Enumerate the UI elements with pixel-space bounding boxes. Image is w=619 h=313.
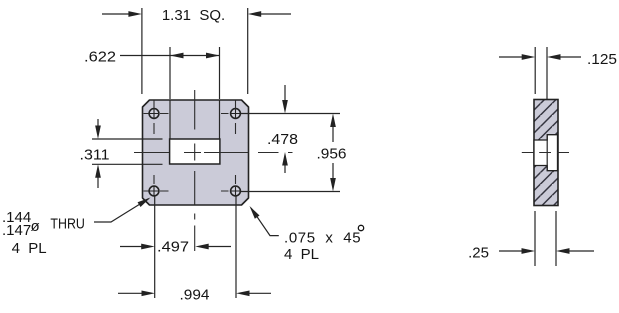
svg-text:ø: ø: [31, 218, 40, 235]
svg-text:.497: .497: [157, 239, 189, 256]
svg-text:4 PL: 4 PL: [284, 246, 319, 263]
svg-text:.622: .622: [84, 49, 116, 66]
svg-text:.994: .994: [180, 287, 210, 304]
svg-text:THRU: THRU: [50, 216, 85, 233]
svg-text:4 PL: 4 PL: [12, 240, 47, 257]
svg-text:.311: .311: [80, 147, 110, 164]
svg-text:.478: .478: [267, 131, 298, 148]
svg-text:.125: .125: [587, 51, 617, 68]
svg-text:.956: .956: [317, 146, 347, 163]
svg-text:.147: .147: [2, 222, 31, 239]
svg-text:1.31 SQ.: 1.31 SQ.: [162, 7, 225, 24]
svg-text:.075 x 45: .075 x 45: [284, 230, 361, 247]
svg-text:.25: .25: [468, 245, 489, 262]
